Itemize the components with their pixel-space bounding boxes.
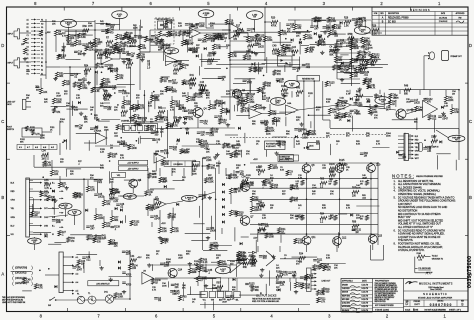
capacitor R97 (234, 188, 243, 193)
svg-text:C2: C2 (41, 54, 43, 56)
svg-text:.022: .022 (155, 207, 160, 209)
svg-text:220K: 220K (40, 137, 45, 139)
resistor R69 (83, 26, 90, 36)
ground (320, 51, 324, 55)
resistor R111 (317, 297, 327, 303)
resistor R125 (91, 87, 101, 93)
resistor R51 (55, 72, 64, 78)
wire (241, 236, 249, 238)
wire (341, 83, 360, 85)
junction (344, 105, 346, 107)
resistor C14 (105, 50, 112, 60)
resistor C39 (237, 100, 246, 106)
resistor C29 (125, 32, 134, 38)
ground (160, 38, 164, 42)
pilot lamp DS1 (104, 292, 114, 304)
junction (308, 114, 310, 116)
svg-text:POT: POT (73, 214, 76, 216)
wire (202, 277, 221, 279)
ground (432, 134, 436, 138)
capacitor C36 (288, 272, 297, 277)
value label (296, 181, 300, 186)
dashed section divider 2 (230, 137, 330, 139)
wire (272, 136, 287, 138)
capacitor C22 (178, 108, 187, 113)
resistor R27 (216, 34, 225, 40)
wire (76, 133, 100, 135)
svg-text:10K: 10K (366, 135, 370, 137)
junction (117, 104, 119, 106)
wire (161, 76, 170, 78)
svg-text:1: 1 (444, 314, 447, 319)
resistor C34 (366, 60, 375, 66)
svg-text:22K: 22K (318, 21, 323, 23)
svg-text:10K: 10K (274, 188, 279, 190)
svg-text:BRN: BRN (415, 154, 419, 156)
resistor R132 (277, 50, 287, 56)
capacitor C29 (207, 39, 216, 44)
svg-text:H1: H1 (27, 73, 29, 75)
svg-text:2.2K: 2.2K (207, 64, 212, 66)
svg-text:APPROVALS: APPROVALS (342, 279, 354, 282)
resistor R19 (263, 36, 273, 42)
wire (211, 261, 223, 263)
svg-text:22K: 22K (138, 125, 143, 127)
svg-text:2.2K: 2.2K (192, 169, 197, 171)
wire -52V rail (250, 233, 378, 235)
resistor R83 (249, 67, 259, 73)
svg-text:1M: 1M (236, 167, 239, 169)
capacitor R132 (352, 229, 362, 234)
capacitor C4 (188, 49, 198, 54)
svg-text:POT: POT (455, 140, 458, 142)
wire fsw out (42, 131, 52, 133)
wire center bus v2 (215, 168, 217, 240)
svg-text:100K: 100K (118, 297, 124, 299)
wire (233, 50, 253, 52)
junction (50, 188, 52, 190)
resistor C54 (242, 177, 249, 187)
junction (182, 106, 184, 108)
svg-text:R7: R7 (106, 38, 110, 40)
resistor R102 (276, 272, 283, 282)
node A-FS2 (68, 210, 81, 216)
resistor emitter b (365, 215, 368, 220)
svg-text:DESIGN: DESIGN (342, 292, 348, 294)
transistor Q14 (168, 268, 183, 277)
capacitor R55 (218, 77, 227, 82)
svg-text:1M: 1M (169, 23, 172, 25)
wire mid rail right (330, 128, 459, 130)
svg-text:68K: 68K (113, 49, 118, 51)
svg-text:B-L: B-L (52, 225, 55, 227)
switch S1 half (158, 21, 164, 29)
svg-text:A-RET: A-RET (275, 100, 281, 103)
svg-text:470: 470 (316, 269, 321, 271)
diode (314, 32, 317, 35)
diode (227, 110, 230, 113)
node A-OUT (215, 266, 230, 274)
svg-text:100K: 100K (302, 137, 308, 139)
resistor R104 (320, 263, 330, 269)
bus label box row (17, 145, 57, 150)
wire r4 down (55, 36, 57, 44)
svg-text:DO NOT SCALE DRAWING: DO NOT SCALE DRAWING (425, 308, 447, 311)
svg-text:470: 470 (114, 71, 119, 73)
wire (51, 105, 66, 107)
svg-text:F1: F1 (77, 294, 80, 296)
svg-text:470: 470 (64, 93, 68, 95)
svg-text:5-18-79: 5-18-79 (362, 292, 369, 294)
svg-text:47K: 47K (119, 78, 124, 80)
wire (143, 121, 164, 123)
svg-text:.022: .022 (260, 206, 265, 208)
svg-text:1M: 1M (352, 47, 355, 49)
diode (137, 123, 140, 126)
svg-text:Q8: Q8 (311, 165, 315, 167)
svg-text:6.8K: 6.8K (100, 167, 105, 169)
wire (66, 168, 81, 170)
svg-text:TO ADJ: TO ADJ (432, 255, 438, 258)
resistor R109 (31, 130, 40, 136)
wire rail c (250, 187, 378, 189)
resistor R111 (332, 24, 342, 30)
svg-text:2.2K: 2.2K (280, 285, 285, 287)
ground (274, 151, 278, 155)
svg-text:68K: 68K (20, 141, 24, 143)
capacitor R139 (338, 101, 348, 106)
resistor C54 (333, 65, 343, 71)
svg-text:68K: 68K (255, 290, 260, 292)
resistor R48 (47, 195, 56, 201)
svg-text:6.8K: 6.8K (163, 181, 168, 183)
svg-text:(OR) GRN FLAT: (OR) GRN FLAT (96, 283, 110, 286)
diode CR11 (222, 191, 225, 194)
resistor C59 (137, 53, 146, 59)
wire (279, 142, 281, 148)
svg-text:100K: 100K (312, 187, 317, 189)
svg-text:.0047: .0047 (362, 177, 368, 179)
resistor R59 (136, 104, 145, 110)
svg-text:100K: 100K (214, 246, 220, 248)
svg-text:Q4: Q4 (204, 109, 208, 111)
svg-text:68K: 68K (158, 49, 162, 51)
svg-text:68K: 68K (252, 193, 256, 195)
wire preamp bus v3 (229, 14, 231, 120)
resistor R80 (229, 188, 238, 194)
svg-text:-15V SUPPLY: -15V SUPPLY (127, 168, 139, 170)
harness connector bar (26, 178, 30, 237)
svg-text:A-1: A-1 (76, 256, 79, 259)
resistor R54 (84, 66, 91, 76)
svg-text:G1: G1 (41, 27, 43, 29)
resistor R132 (130, 220, 140, 226)
resistor C4 (128, 144, 138, 150)
svg-text:DESCRIPTION: DESCRIPTION (388, 13, 400, 15)
wire (265, 284, 267, 296)
svg-text:FSCM NO.: FSCM NO. (414, 301, 421, 303)
wire (106, 23, 120, 25)
wire (204, 302, 206, 309)
resistor R50 (450, 108, 459, 114)
small label box VR (112, 172, 126, 177)
junction (285, 38, 287, 40)
svg-text:RED: RED (415, 140, 419, 142)
capacitor R55 (302, 64, 311, 69)
resistor R104 (134, 121, 144, 127)
resistor C54 (334, 43, 343, 49)
resistor R12 (158, 31, 166, 37)
svg-text:R96: R96 (352, 222, 357, 224)
svg-text:Q13: Q13 (378, 236, 383, 238)
transistor Q9 (335, 164, 348, 173)
resistor R125 (325, 81, 335, 87)
svg-text:68K: 68K (44, 195, 49, 197)
capacitor C14 (201, 146, 210, 151)
resistor R45 (356, 92, 363, 102)
wire (166, 86, 168, 92)
svg-text:D2: D2 (41, 46, 43, 48)
ground c12 (336, 48, 340, 52)
wire (314, 20, 326, 22)
wire stage1 out (95, 51, 112, 53)
svg-text:.022: .022 (306, 67, 311, 69)
svg-text:2.2K: 2.2K (173, 35, 178, 37)
svg-text:.0047: .0047 (287, 51, 293, 53)
svg-text:A-B: A-B (35, 146, 39, 149)
resistor R62 (166, 19, 175, 25)
transformer T1 primary (88, 293, 96, 304)
resistor C4 (329, 46, 336, 56)
svg-text:D2: D2 (27, 46, 29, 48)
svg-text:R41: R41 (190, 75, 195, 77)
capacitor C34 (190, 25, 199, 30)
resistor C29 (363, 79, 372, 85)
svg-text:1M: 1M (296, 96, 299, 98)
svg-text:A-OUT: A-OUT (220, 268, 226, 271)
capacitor R111 (78, 79, 88, 84)
svg-text:47K: 47K (354, 62, 359, 64)
ground (237, 258, 241, 262)
resistor R49 (444, 96, 454, 102)
ground c21 (129, 116, 133, 120)
svg-text:Q14: Q14 (178, 269, 183, 271)
svg-text:470: 470 (316, 109, 320, 111)
resistor R55 (249, 256, 256, 266)
resistor C19 (431, 137, 438, 147)
svg-text:220K: 220K (266, 133, 271, 135)
resistor C39 (358, 51, 367, 57)
svg-text:10K: 10K (43, 92, 48, 94)
ground c16 (374, 104, 378, 108)
svg-text:RELEASED, PR969: RELEASED, PR969 (388, 17, 409, 20)
svg-text:4.7K: 4.7K (294, 189, 299, 191)
svg-text:5: 5 (213, 314, 216, 319)
wire (416, 117, 418, 130)
wire (365, 67, 383, 69)
resistor R125 (91, 42, 101, 48)
diode (231, 145, 234, 148)
svg-text:.0047: .0047 (76, 269, 82, 271)
ground (292, 274, 296, 278)
diode CR14 (222, 213, 225, 216)
svg-text:6.8K: 6.8K (241, 100, 246, 102)
wire (234, 78, 255, 80)
svg-text:MFG ENG: MFG ENG (342, 299, 350, 301)
ground c22 (178, 116, 182, 120)
svg-text:10K: 10K (160, 93, 164, 95)
resistor C49 (116, 124, 125, 130)
svg-text:4.7K: 4.7K (159, 43, 164, 45)
resistor R104 (281, 86, 288, 96)
node A-RET return (271, 98, 286, 106)
svg-text:22K: 22K (107, 109, 112, 111)
diode (258, 229, 261, 232)
wire labels to harness (45, 274, 59, 276)
svg-text:R83: R83 (121, 108, 126, 110)
wire (285, 117, 287, 127)
svg-text:47K: 47K (272, 114, 277, 116)
capacitor C34 (354, 103, 364, 108)
wire from A-BASS (68, 27, 70, 40)
ground (88, 41, 92, 45)
svg-text:H1: H1 (41, 19, 43, 21)
svg-text:68K: 68K (418, 110, 423, 112)
junction (101, 72, 103, 74)
svg-text:.1: .1 (208, 273, 211, 275)
svg-text:10/25: 10/25 (414, 103, 420, 105)
wire (244, 133, 246, 143)
wire reverb rail (300, 19, 340, 21)
wire PG underline (418, 269, 430, 271)
svg-text:470: 470 (263, 258, 268, 260)
pin arrow BLK (11, 180, 55, 184)
svg-text:4: 4 (265, 1, 268, 6)
junction (48, 268, 50, 270)
resistor C34 (182, 80, 191, 86)
svg-text:C54: C54 (242, 177, 247, 179)
svg-text:THIS DOCUMENT CONTAINS: THIS DOCUMENT CONTAINS (375, 282, 396, 285)
svg-text:POT: POT (33, 242, 36, 244)
wire (203, 250, 227, 252)
svg-text:1K: 1K (95, 46, 98, 48)
capacitor C10 (286, 24, 295, 29)
capacitor C25 (94, 194, 104, 199)
capacitor C49 (160, 24, 169, 29)
junction (136, 140, 138, 142)
resistor C44 (415, 106, 424, 112)
wire (66, 140, 68, 150)
resistor R77 (110, 216, 119, 222)
ground zobel (204, 284, 208, 288)
resistor R15 (212, 44, 221, 50)
resistor R65 (220, 108, 230, 114)
resistor C14 (362, 57, 369, 67)
wire q10 chain (370, 172, 372, 234)
svg-text:1M: 1M (281, 94, 284, 96)
resistor R76 (102, 222, 111, 228)
capacitor R139 (218, 34, 228, 39)
node A-TREB (198, 10, 214, 18)
wire top rail a (56, 29, 95, 31)
wire to preamp plug (423, 56, 425, 59)
pin arrow pwr 2 (72, 264, 78, 267)
resistor C9 (281, 44, 290, 50)
svg-text:6.8K: 6.8K (102, 238, 107, 240)
wire (151, 44, 171, 46)
diode (350, 97, 353, 100)
svg-text:47K: 47K (211, 168, 216, 170)
svg-text:100K: 100K (88, 25, 93, 27)
svg-text:220K: 220K (357, 105, 363, 107)
svg-text:QUAL ENG: QUAL ENG (342, 302, 351, 305)
ground c15 (262, 106, 266, 110)
svg-text:6.8K: 6.8K (336, 28, 341, 30)
ground (109, 278, 113, 282)
svg-text:1K: 1K (317, 262, 320, 264)
resistor R97 (316, 290, 325, 296)
svg-text:INPUT: INPUT (8, 63, 15, 65)
svg-text:1M: 1M (292, 55, 295, 57)
resistor R91 (258, 202, 265, 212)
resistor R90 (263, 82, 272, 88)
resistor C14 (248, 41, 255, 51)
svg-text:OUT WRITTEN PERMISSION.: OUT WRITTEN PERMISSION. (375, 293, 397, 295)
capacitor R62 (119, 143, 129, 148)
ground (71, 105, 75, 109)
value label (232, 144, 241, 150)
wire (257, 232, 259, 242)
ground (185, 127, 189, 131)
svg-text:.0047: .0047 (56, 95, 62, 97)
zone letter labels sides (1, 43, 472, 276)
wire reverb rail b (340, 19, 371, 21)
wire (338, 232, 340, 248)
ground (115, 46, 119, 50)
junction (114, 92, 116, 94)
resistor C54 (42, 151, 49, 161)
value label (296, 216, 300, 221)
wire (216, 63, 231, 65)
svg-text:47K: 47K (146, 257, 150, 259)
svg-text:A-R: A-R (51, 146, 55, 149)
resistor R41 (190, 75, 197, 85)
resistor R48 (166, 122, 175, 128)
resistor R9 (138, 44, 146, 50)
svg-text:B1: B1 (27, 27, 29, 29)
resistor C44 (364, 78, 373, 84)
svg-text:22K: 22K (127, 38, 132, 40)
svg-text:1K: 1K (79, 197, 82, 199)
op-amp U1A first stage (101, 51, 113, 64)
resistor R43 (296, 88, 303, 98)
wire (364, 20, 366, 28)
dashed enclosure mid-shift switch (155, 18, 174, 44)
svg-text:10K: 10K (334, 267, 338, 269)
resistor R27 (161, 160, 170, 166)
capacitor C5 (122, 52, 131, 57)
svg-text:100K: 100K (267, 40, 273, 42)
svg-text:1M: 1M (42, 159, 45, 161)
svg-text:BLU: BLU (11, 225, 15, 227)
wire switch feed b (143, 100, 145, 123)
node A-REV send (284, 80, 299, 88)
svg-text:CHB: CHB (44, 225, 49, 227)
wire (436, 153, 450, 155)
pin arrow VIO (11, 232, 55, 236)
capacitor C29 (243, 80, 253, 85)
ground (62, 45, 66, 49)
